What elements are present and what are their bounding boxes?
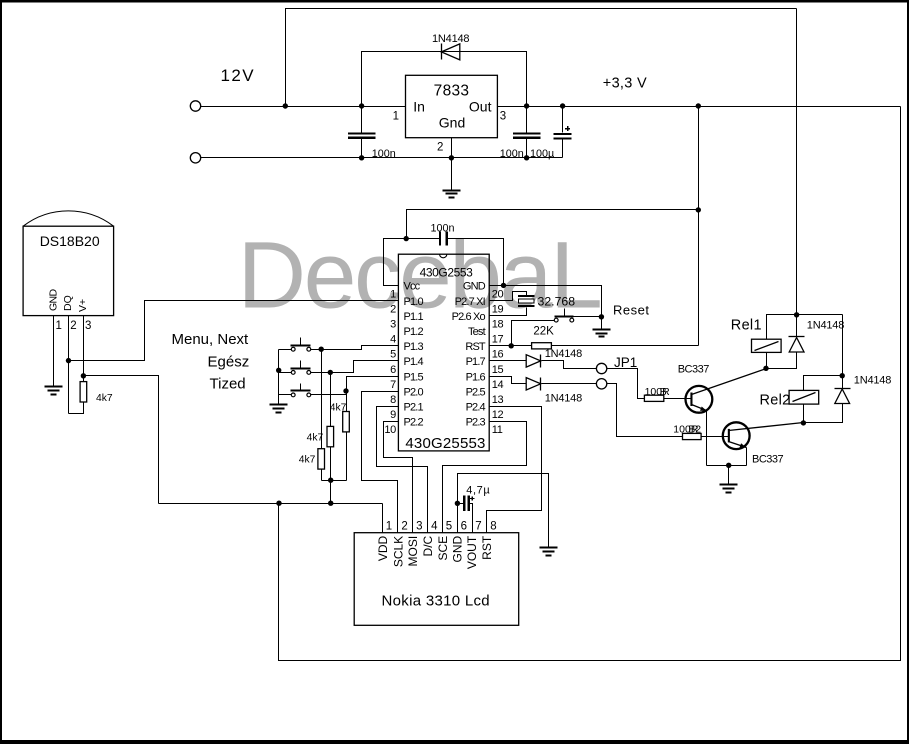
svg-text:1: 1	[390, 288, 396, 300]
wire crystal to Xo	[490, 308, 527, 316]
junction 12V	[283, 103, 288, 108]
wire D3 to JP1-1	[542, 361, 597, 369]
svg-text:1: 1	[386, 520, 392, 532]
svg-text:BC337: BC337	[752, 454, 784, 466]
svg-text:4,7µ: 4,7µ	[466, 485, 490, 497]
svg-text:32.768: 32.768	[538, 295, 576, 309]
svg-text:P2.3: P2.3	[466, 417, 486, 429]
wire +3.3V down to RST pullup	[698, 107, 700, 346]
junction button common	[276, 368, 281, 373]
wire sensor GND pin	[53, 316, 55, 387]
svg-text:10: 10	[384, 424, 396, 436]
wire RST stub	[490, 345, 532, 347]
junction C3 top	[560, 103, 565, 108]
svg-text:4k7: 4k7	[96, 393, 113, 404]
svg-text:14: 14	[492, 379, 504, 391]
svg-text:P1.6: P1.6	[466, 371, 486, 383]
wire DQ to P1.0	[69, 301, 399, 361]
svg-text:7833: 7833	[434, 83, 470, 100]
wire +3.3V right side loop	[279, 107, 901, 661]
push button SW3 Tized	[291, 384, 311, 397]
svg-text:100n: 100n	[500, 148, 524, 160]
wire buttons left common	[279, 350, 292, 405]
resistor R2 4k7	[327, 426, 334, 446]
wire Rel1 coil top	[767, 315, 843, 340]
wire 22K to +3.3V	[552, 345, 699, 347]
resistor R3 4k7	[343, 412, 350, 432]
capacitor C2 100n	[513, 132, 541, 139]
voltage regulator 7833	[406, 75, 498, 137]
svg-text:P1.5: P1.5	[404, 371, 424, 383]
wire emitter bus to ground	[707, 466, 747, 485]
svg-text:GND: GND	[463, 281, 486, 293]
svg-text:100µ: 100µ	[530, 148, 554, 160]
wire Vcc feed	[407, 210, 699, 239]
wire 12V drop to Rel1	[796, 9, 798, 337]
diode D3 1N4148	[526, 355, 541, 368]
wire R6 to Q1 base	[664, 398, 691, 400]
wire R7 to Q2 base	[702, 436, 729, 438]
svg-text:12V: 12V	[221, 66, 255, 85]
svg-text:4k7: 4k7	[330, 402, 347, 413]
junction Rel2 top	[840, 373, 845, 378]
wire P2.4 to LCD RST	[487, 407, 542, 533]
wire SW2 to P1.4	[311, 361, 399, 373]
connector JP1	[596, 363, 606, 389]
svg-text:Test: Test	[468, 326, 486, 338]
svg-text:7: 7	[390, 379, 396, 391]
junction V+ / 3.3V loop	[276, 501, 281, 506]
push button SW2 Egesz	[291, 361, 311, 375]
junction LCD GND / C5	[455, 501, 460, 506]
junction diode-in	[359, 103, 364, 108]
junction +3.3V tap	[696, 103, 701, 108]
svg-text:8: 8	[490, 520, 496, 532]
svg-text:1: 1	[393, 111, 399, 123]
svg-text:P2.7 XI: P2.7 XI	[455, 296, 486, 308]
junction Vcc feed	[696, 207, 701, 212]
diode D1 1N4148 bypass (pointing left)	[441, 44, 460, 60]
transistor Q1 BC337	[686, 369, 767, 413]
svg-text:1: 1	[56, 320, 62, 332]
svg-text:5: 5	[446, 520, 452, 532]
junction SW3/R3	[343, 388, 348, 393]
wire pullup bus	[322, 481, 347, 504]
resistor R6 100R	[644, 395, 663, 401]
svg-text:P1.3: P1.3	[404, 341, 424, 353]
relay Rel2 coil	[789, 390, 819, 404]
svg-text:1N4148: 1N4148	[432, 33, 469, 45]
wire P1.7 to D3	[490, 360, 527, 362]
wire GND pin 20 to ground	[490, 286, 602, 330]
svg-text:MOSI: MOSI	[406, 536, 420, 567]
wire R1 column	[321, 350, 323, 481]
svg-text:2: 2	[437, 142, 443, 154]
junction Gnd rail	[449, 155, 454, 160]
capacitor C4 100n decoupling	[439, 232, 448, 246]
wire 12V riser to top rail	[286, 9, 797, 107]
junction Rel1/Q1 collector	[763, 366, 768, 371]
wire JP1-1 to R6	[607, 369, 645, 399]
crystal Q1 32.768	[518, 295, 535, 307]
svg-text:P2.1: P2.1	[404, 402, 424, 414]
svg-text:11: 11	[492, 424, 503, 436]
wire DQ pin	[68, 316, 70, 414]
wire D6 anode / Rel2 bottom	[804, 404, 843, 423]
svg-text:3: 3	[390, 319, 396, 331]
svg-text:B2: B2	[688, 423, 701, 435]
svg-text:17: 17	[492, 334, 504, 346]
wire V+ rail	[159, 503, 383, 505]
junction Vcc/feed	[404, 236, 409, 241]
svg-text:In: In	[413, 99, 425, 115]
svg-text:2: 2	[70, 320, 76, 332]
wire D5 anode / Rel1 bottom	[767, 353, 797, 369]
svg-text:1N4148: 1N4148	[545, 348, 582, 360]
svg-text:VOUT: VOUT	[465, 535, 479, 569]
wire C5 left	[458, 503, 464, 505]
wire R5 bottom to DQ	[69, 403, 84, 414]
junction reset/GND	[599, 314, 604, 319]
wire JP1-2 to R7	[607, 384, 683, 437]
svg-text:P1.1: P1.1	[404, 311, 424, 323]
resistor R1 4k7	[318, 449, 325, 469]
ground transistors	[720, 485, 738, 493]
svg-text:RST: RST	[465, 341, 486, 353]
junction C1 bottom	[359, 155, 364, 160]
junction 12V/Rel1	[794, 312, 799, 317]
svg-text:D/C: D/C	[421, 535, 435, 556]
svg-text:3: 3	[85, 320, 91, 332]
svg-text:1N4148: 1N4148	[854, 375, 891, 387]
svg-text:100n: 100n	[431, 223, 455, 235]
svg-text:VDD: VDD	[376, 535, 390, 561]
relay Rel1 coil	[752, 339, 782, 352]
diode D6 1N4148 flyback Rel2	[835, 389, 851, 404]
diode D5 1N4148 flyback Rel1	[789, 337, 805, 353]
wire regulator Gnd down	[451, 138, 453, 191]
junction C2 bottom	[524, 155, 529, 160]
svg-text:P2.4: P2.4	[466, 402, 486, 414]
wire P2.1 to D/C	[377, 407, 428, 533]
wire reset button to GND line	[574, 316, 602, 318]
wire R2 column	[330, 373, 332, 481]
junction GND/C4	[501, 283, 506, 288]
wire 12V input to regulator In	[201, 106, 406, 108]
svg-text:430G25553: 430G25553	[405, 435, 485, 452]
svg-text:DS18B20: DS18B20	[40, 233, 100, 249]
svg-text:12: 12	[492, 409, 504, 421]
svg-text:SCE: SCE	[436, 536, 450, 561]
svg-text:19: 19	[492, 303, 504, 315]
wire 0V bottom rail	[201, 157, 563, 159]
svg-text:Rel1: Rel1	[731, 317, 762, 333]
junction emitters	[726, 463, 731, 468]
svg-text:B: B	[660, 386, 667, 398]
junction SW2/R2	[328, 370, 333, 375]
svg-text:3: 3	[416, 520, 422, 532]
svg-text:RST: RST	[480, 535, 494, 560]
resistor R5 4k7 pullup DQ	[80, 382, 87, 402]
display U2 Nokia 3310 Lcd	[354, 533, 519, 626]
wire P2.0 to SCLK	[362, 392, 399, 533]
wire 12V to Rel2	[842, 315, 844, 389]
push button SW4 Reset	[554, 309, 573, 323]
junction V+	[81, 373, 86, 378]
capacitor C3 100u electrolytic	[554, 126, 572, 139]
junction pullup bus	[328, 478, 333, 483]
svg-text:16: 16	[492, 349, 504, 361]
svg-text:4: 4	[390, 334, 396, 346]
microcontroller U1 430G2553	[398, 254, 489, 452]
wire RST to reset button	[512, 321, 555, 346]
wire C3	[562, 107, 564, 158]
svg-text:Vcc: Vcc	[404, 281, 421, 293]
svg-text:Out: Out	[469, 99, 492, 115]
svg-text:22K: 22K	[533, 326, 554, 338]
ground buttons	[270, 405, 288, 413]
svg-text:4k7: 4k7	[307, 432, 324, 443]
wire Vcc to C4	[384, 239, 440, 286]
svg-text:4k7: 4k7	[299, 454, 316, 465]
wire Q1 emitter down	[706, 411, 708, 466]
svg-text:P1.0: P1.0	[404, 296, 424, 308]
transistor Q2 BC337	[723, 422, 804, 449]
svg-text:JP1: JP1	[614, 355, 637, 370]
svg-text:V+: V+	[77, 299, 89, 312]
wire V+ to rail	[84, 376, 159, 504]
temperature sensor DS18B20	[23, 211, 114, 316]
wire SW1 to P1.3	[311, 346, 399, 350]
wire C1	[361, 107, 363, 158]
wire Rel2 coil top	[804, 376, 843, 391]
ground LCD	[540, 548, 558, 556]
junction DQ	[66, 358, 71, 363]
wire diode bypass	[362, 52, 527, 107]
svg-text:Egész: Egész	[208, 354, 250, 371]
wire Q2 emitter down	[746, 448, 748, 466]
svg-text:P1.4: P1.4	[404, 356, 424, 368]
ground regulator	[443, 191, 461, 198]
svg-text:+3,3 V: +3,3 V	[603, 76, 647, 92]
resistor R7 100R	[683, 433, 702, 439]
terminal 12V- input	[190, 153, 200, 163]
U1 pin numbers 1-10	[384, 288, 396, 436]
svg-text:2: 2	[401, 520, 407, 532]
svg-text:Nokia 3310 Lcd: Nokia 3310 Lcd	[382, 593, 490, 610]
wire P1.6 to D4	[490, 377, 527, 384]
wire P2.2 to MOSI	[384, 422, 413, 533]
svg-text:GND: GND	[451, 535, 465, 562]
wire P2.3 to SCE	[443, 422, 527, 533]
svg-text:9: 9	[390, 409, 396, 421]
wire C5 to VOUT	[470, 504, 473, 533]
svg-text:P1.7: P1.7	[466, 356, 486, 368]
svg-text:GND: GND	[47, 288, 59, 311]
svg-text:3: 3	[500, 111, 506, 123]
wire R3 column	[346, 391, 348, 481]
resistor R4 22K	[532, 343, 552, 349]
wire VDD riser	[382, 504, 384, 533]
svg-text:7: 7	[475, 520, 481, 532]
wire XI to crystal	[490, 292, 527, 301]
svg-text:P1.2: P1.2	[404, 326, 424, 338]
junction SW1/R1	[319, 347, 324, 352]
svg-text:5: 5	[390, 349, 396, 361]
svg-text:Reset: Reset	[613, 303, 649, 318]
wire LCD GND to ground	[458, 474, 549, 548]
wire SW3 to P1.5	[311, 377, 399, 395]
svg-text:6: 6	[390, 364, 396, 376]
junction diode-out	[524, 103, 529, 108]
value label 100R/B2 (R7)	[673, 423, 701, 435]
U2 pin numbers 1-8	[386, 520, 497, 532]
terminal 12V+ input	[190, 101, 200, 111]
ground sensor	[45, 387, 63, 395]
push button SW1 Menu	[291, 338, 311, 352]
wire +3.3V output rail	[498, 106, 901, 108]
wire D4 to JP1-2	[542, 383, 597, 385]
svg-text:P2.5: P2.5	[466, 386, 486, 398]
wire C2	[526, 107, 528, 158]
svg-text:Rel2: Rel2	[760, 392, 791, 408]
svg-text:Tized: Tized	[210, 376, 246, 393]
diode D4 1N4148	[526, 378, 541, 391]
capacitor C1 100n	[348, 132, 376, 139]
svg-text:6: 6	[461, 520, 467, 532]
svg-text:15: 15	[492, 364, 504, 376]
junction V+ / pullups	[328, 501, 333, 506]
svg-text:20: 20	[492, 288, 504, 300]
ground MCU GND	[593, 330, 611, 337]
value label 100R/B (R6)	[645, 386, 671, 398]
svg-text:1N4148: 1N4148	[807, 320, 844, 332]
junction RST	[509, 343, 514, 348]
svg-text:P2.6 Xo: P2.6 Xo	[452, 311, 486, 323]
svg-text:18: 18	[492, 319, 504, 331]
svg-text:Menu, Next: Menu, Next	[172, 331, 250, 348]
capacitor C5 4,7u	[463, 496, 474, 511]
wire V+ pin	[83, 316, 85, 382]
svg-text:BC337: BC337	[678, 364, 710, 376]
svg-text:Gnd: Gnd	[439, 115, 465, 131]
svg-text:4: 4	[431, 520, 438, 532]
wire C4 to GND pin	[448, 239, 504, 286]
svg-text:430G2553: 430G2553	[420, 265, 474, 279]
svg-text:13: 13	[492, 394, 504, 406]
svg-text:P2.2: P2.2	[404, 417, 424, 429]
svg-text:SCLK: SCLK	[391, 536, 405, 567]
svg-text:P2.0: P2.0	[404, 386, 424, 398]
svg-text:2: 2	[390, 303, 396, 315]
svg-text:100n: 100n	[372, 148, 396, 160]
svg-text:DQ: DQ	[62, 295, 74, 311]
junction Rel2/Q2 collector	[801, 420, 806, 425]
svg-text:1N4148: 1N4148	[545, 393, 582, 405]
U1 pin numbers 11-20	[492, 288, 504, 436]
svg-text:8: 8	[390, 394, 396, 406]
